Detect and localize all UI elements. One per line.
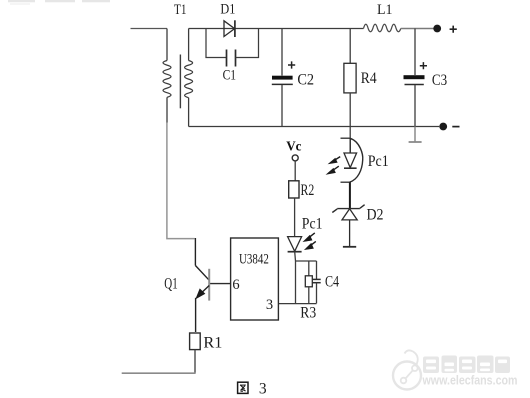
svg-text:R1: R1 — [203, 334, 222, 351]
capacitor C1 — [227, 50, 236, 67]
wire: R3/C4 branch top — [296, 260, 317, 262]
wire: pin 3 net — [278, 303, 316, 305]
wire: primary bottom lead (black part) — [166, 97, 168, 122]
D2 branch end bar — [343, 246, 356, 248]
svg-text:Pc1: Pc1 — [302, 215, 323, 232]
wire: pin 6 to Q1 base — [209, 283, 230, 285]
transistor Q1 — [195, 238, 209, 332]
resistor R4 — [344, 29, 356, 154]
wire: primary bottom lead gray elbow to Q1 collector — [167, 123, 195, 239]
Pc1 receiver arrows — [303, 233, 315, 250]
resistor R3 — [305, 261, 312, 303]
resistor R2 — [289, 181, 299, 198]
svg-text:R3: R3 — [300, 305, 316, 322]
watermark logo circle — [393, 350, 421, 389]
wire: top rail secondary to L1 — [189, 28, 364, 30]
capacitor C4 — [313, 261, 321, 303]
C2 polarity plus — [288, 61, 295, 68]
wire: Vc to R2 — [294, 161, 296, 181]
IC U3842 box — [231, 238, 279, 320]
svg-text:C2: C2 — [297, 71, 314, 88]
wire: C1 snubber branch left — [206, 29, 227, 58]
wire: rail L1 to + terminal — [401, 28, 434, 30]
svg-text:U3842: U3842 — [239, 252, 269, 268]
svg-text:R4: R4 — [361, 70, 377, 87]
svg-text:3: 3 — [259, 380, 267, 397]
svg-text:Vc: Vc — [286, 139, 301, 154]
top-left cropped text remnant — [8, 1, 110, 4]
svg-text:C4: C4 — [325, 273, 339, 290]
svg-text:L1: L1 — [377, 2, 393, 18]
wire: bottom-left return — [122, 372, 196, 374]
wire: primary top lead — [166, 29, 168, 61]
wire: C1 snubber branch right — [236, 29, 259, 58]
optocoupler Pc1 LED (emitter side) — [341, 138, 363, 182]
inductor L1 — [364, 24, 401, 32]
svg-text:D2: D2 — [367, 206, 384, 223]
transformer T1 core — [179, 55, 181, 109]
wire: top-left primary input — [131, 28, 168, 30]
svg-text:C3: C3 — [432, 72, 447, 89]
svg-text:3: 3 — [266, 297, 273, 313]
zener diode D2 — [332, 205, 364, 220]
optocoupler Pc1 photodiode (receiver side) — [288, 237, 302, 252]
svg-text:6: 6 — [232, 277, 239, 293]
transformer T1 primary winding — [163, 61, 171, 98]
C3 polarity plus — [420, 62, 427, 69]
label + output — [450, 26, 457, 33]
wire: secondary top lead — [188, 29, 190, 61]
watermark text 'dianzifashaoyou' (CJK drawn as light blobs) — [423, 356, 510, 374]
ground stub below bottom rail — [409, 127, 422, 143]
label - output — [452, 126, 459, 128]
capacitor C3 (electrolytic) — [404, 29, 425, 127]
svg-text:D1: D1 — [220, 2, 235, 18]
wire: R2 to Pc1 receiver — [294, 198, 296, 237]
svg-text:www.elecfans.com: www.elecfans.com — [422, 373, 518, 388]
node Vc terminal — [292, 155, 298, 161]
svg-text:R2: R2 — [301, 182, 315, 199]
wire: Pc1 receiver cathode down to pin3 net — [294, 252, 297, 304]
diode D1 — [224, 20, 235, 37]
wire: bottom rail — [189, 126, 440, 128]
node: - output terminal dot — [439, 123, 447, 131]
Pc1 LED emission arrows — [327, 157, 341, 175]
wire: D2 anode lead — [349, 220, 351, 247]
node: + output terminal dot — [433, 25, 441, 33]
svg-text:Pc1: Pc1 — [368, 153, 389, 170]
svg-text:T1: T1 — [174, 2, 187, 18]
capacitor C2 (electrolytic) — [272, 29, 293, 127]
transformer T1 secondary winding — [185, 61, 193, 98]
svg-text:Q1: Q1 — [164, 275, 177, 292]
caption: figure 3 (CJK 'tu' drawn manually) — [238, 382, 248, 393]
resistor R1 — [190, 333, 201, 373]
wire: secondary bottom lead — [188, 98, 190, 127]
svg-text:C1: C1 — [223, 68, 237, 84]
wire: Pc1 to D2 — [349, 182, 351, 208]
